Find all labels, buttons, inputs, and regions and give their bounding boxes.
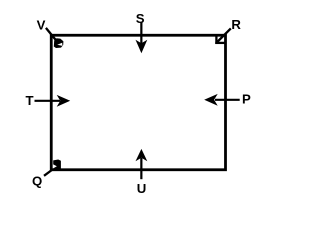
arrow V (top-left corner, diagonal into rectangle) <box>46 28 64 48</box>
arrow U (bottom edge, points up into rectangle) <box>136 149 148 179</box>
arrow R (top-right corner, diagonal into rectangle, open head) <box>215 28 231 44</box>
svg-text:U: U <box>137 181 147 196</box>
rectangle outline <box>51 35 225 170</box>
arrow T (left edge, points right into rectangle) <box>35 95 71 107</box>
svg-text:P: P <box>242 92 251 107</box>
svg-text:Q: Q <box>32 173 42 188</box>
svg-text:R: R <box>231 17 241 32</box>
arrow S (top edge, points down into rectangle) <box>136 22 148 53</box>
arrow Q (bottom-left corner, diagonal into rectangle) <box>44 160 61 176</box>
arrow P (right edge, points left into rectangle) <box>204 94 240 106</box>
svg-text:V: V <box>37 17 46 32</box>
svg-text:T: T <box>25 93 33 108</box>
